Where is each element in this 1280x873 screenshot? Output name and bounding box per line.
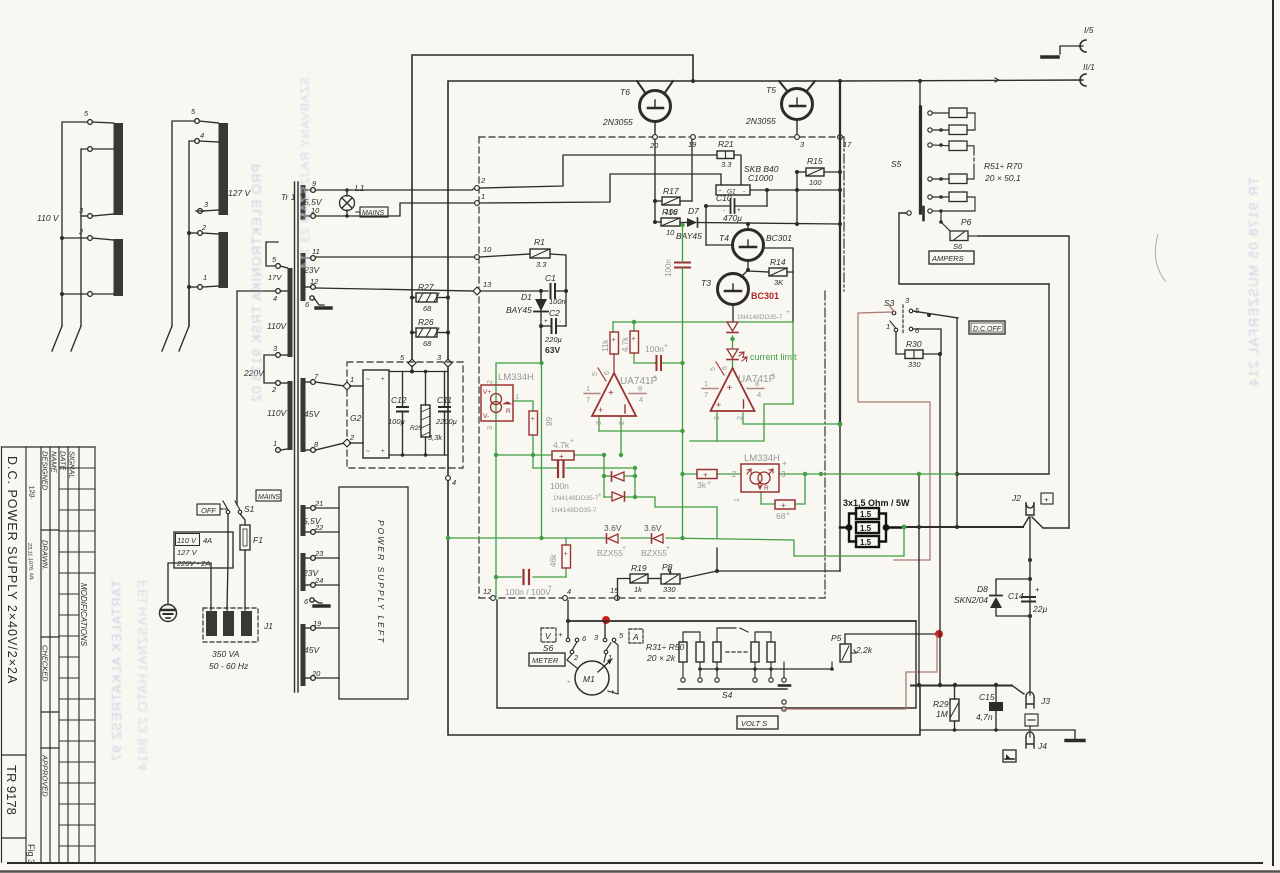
arrow on II/1 wire [995,78,999,82]
svg-text:MODIFICATIONS: MODIFICATIONS [79,583,88,647]
big box left/bottom [448,363,920,735]
svg-text:METER: METER [532,656,559,665]
svg-text:R27: R27 [418,282,434,292]
J2 down wire [1029,517,1031,695]
svg-text:22µ: 22µ [1032,604,1047,614]
taps 110V [88,120,93,125]
potentiometer P6 [950,231,968,241]
svg-text:R51÷ R70: R51÷ R70 [984,161,1022,171]
svg-text:1: 1 [203,273,207,282]
svg-text:C11: C11 [437,395,452,405]
svg-text:1N4148DO35-7: 1N4148DO35-7 [553,495,599,502]
svg-text:+: + [781,501,786,510]
svg-text:C14: C14 [1008,591,1024,601]
svg-text:S6: S6 [953,242,963,251]
svg-text:5: 5 [191,107,196,116]
svg-text:3.3: 3.3 [536,260,547,269]
svg-text:G2: G2 [350,413,362,423]
svg-text:C1: C1 [545,273,556,283]
svg-text:+: + [727,383,733,394]
T3 collector link [741,270,748,277]
G1 output wire [750,189,840,191]
svg-text:2,2k: 2,2k [855,645,873,655]
svg-text:4.7k: 4.7k [621,336,630,352]
resistor 11k [610,332,619,354]
capacitor C12 [397,406,408,408]
lamp L1 leads [346,190,348,196]
svg-text:3: 3 [79,206,84,215]
svg-text:3x1,5 Ohm / 5W: 3x1,5 Ohm / 5W [843,498,910,508]
jack J4 [1026,737,1034,748]
green opamp2 box [690,404,793,441]
R21 to G1 [734,155,741,185]
green vertical x919 top [918,473,920,475]
svg-text:T3: T3 [701,278,711,288]
red dot 2 [935,630,943,638]
diode D7 [687,218,697,227]
svg-text:~: ~ [366,449,370,455]
zener row y538 [448,537,606,539]
svg-text:AMPERS: AMPERS [931,254,964,263]
MAINS box lower [256,490,281,501]
S6 contacts [566,638,616,654]
green x793 down to 404 [792,322,794,404]
wire node13 to C1 [480,290,548,292]
green row y322 [613,321,793,323]
svg-text:+: + [608,388,614,399]
svg-text:20 × 2k: 20 × 2k [646,653,676,663]
svg-text:1: 1 [886,322,890,331]
svg-text:R: R [506,408,511,415]
sheet right frame [1272,0,1274,865]
46k stub [565,538,567,545]
svg-text:LM334H: LM334H [498,372,534,383]
svg-text:+: + [653,374,657,381]
svg-text:3: 3 [273,344,278,353]
svg-text:6: 6 [604,371,611,375]
svg-text:VOLT S: VOLT S [741,719,767,728]
svg-text:5: 5 [915,306,920,315]
svg-text:6: 6 [915,326,920,335]
green row y455 [496,454,552,456]
earth wire [168,563,211,610]
svg-text:10: 10 [483,245,492,254]
svg-text:+: + [703,471,708,480]
AMPERS box [929,251,974,264]
LM334-2 top feed [838,423,840,425]
svg-text:110 V: 110 V [177,536,197,545]
svg-text:1: 1 [350,375,354,384]
svg-text:+: + [598,492,602,499]
svg-text:5: 5 [84,109,89,118]
svg-text:5: 5 [272,255,277,264]
svg-text:4.7k: 4.7k [553,440,570,450]
svg-text:3K: 3K [774,278,784,287]
svg-text:POWER SUPPLY LEFT: POWER SUPPLY LEFT [376,520,386,644]
wiper line to P5 [700,668,832,670]
svg-text:1: 1 [734,498,741,502]
resistor 68 (U2) [529,411,538,435]
capacitor C11 [439,406,450,408]
svg-text:3.3: 3.3 [721,160,732,169]
A box [629,629,643,643]
svg-text:1M: 1M [936,709,949,719]
secondary taps [306,188,316,681]
svg-text:D8: D8 [977,584,988,594]
svg-text:R17: R17 [663,186,679,196]
voltage table box [174,532,233,568]
S4 wiper contact [782,700,786,704]
svg-text:P8: P8 [662,562,673,572]
svg-text:100n / 100V: 100n / 100V [505,587,551,597]
MAINS box top [360,207,388,217]
ladder wires [932,113,975,231]
svg-text:+: + [786,309,790,316]
rail 2 [81,149,88,326]
svg-text:6: 6 [722,366,729,370]
resistor 4.7k upper [630,331,639,353]
svg-text:1: 1 [586,384,590,393]
svg-text:+: + [664,343,668,350]
green dots [446,223,921,579]
svg-text:2: 2 [619,421,626,425]
svg-text:2: 2 [201,223,207,232]
green LM334-1 [496,363,542,598]
OFF box [197,504,220,515]
svg-text:C2: C2 [549,308,560,318]
meter M1 [575,661,609,695]
right outer rectangle [978,236,1069,528]
rectifier G1 [716,185,750,195]
rail 1 [62,122,88,326]
svg-text:13: 13 [483,280,492,289]
svg-text:current limit: current limit [750,352,797,362]
svg-text:-: - [723,208,725,214]
svg-text:12: 12 [483,587,492,596]
svg-text:100n: 100n [549,297,566,306]
svg-text:SIGNAL: SIGNAL [68,451,77,479]
svg-text:R15: R15 [807,156,823,166]
red junction dot [602,616,610,624]
svg-text:C15: C15 [979,692,995,702]
svg-text:4,7n: 4,7n [976,712,993,722]
svg-text:22: 22 [314,523,324,532]
svg-text:10: 10 [666,228,675,237]
D.C.OFF box [969,321,1005,334]
diode 1N4148 (T3 emitter) [727,322,738,331]
svg-text:BC301: BC301 [751,291,779,301]
node diamonds 5 and 3 [408,359,416,367]
resistor 3k [697,470,717,479]
I/5 wire and ground [1060,46,1083,54]
transistor T3 [718,274,749,305]
scan artifact arc [1155,234,1166,282]
svg-text:4: 4 [273,294,277,303]
svg-text:+: + [559,452,564,461]
svg-text:R19: R19 [631,563,647,573]
svg-text:1: 1 [515,392,519,401]
svg-text:110V: 110V [267,321,288,331]
P5 top wire to red dot2 [845,634,937,644]
svg-text:4: 4 [639,395,643,404]
svg-text:23.11.1976. ML: 23.11.1976. ML [26,542,34,581]
diode D1 [540,291,542,363]
svg-text:45V: 45V [304,645,320,655]
resistor R26 [416,328,437,337]
svg-text:1N4148DO35-7: 1N4148DO35-7 [551,507,597,514]
ground tap 6 upper [314,298,324,305]
svg-text:~: ~ [366,377,370,383]
svg-text:21: 21 [314,499,323,508]
title block row lines [59,468,95,846]
svg-text:A: A [632,632,639,642]
svg-text:+: + [381,449,385,455]
bank bottom leads [683,662,784,677]
resistor R27 [416,293,437,302]
svg-text:220µ: 220µ [544,335,562,344]
V box [541,628,556,642]
svg-text:+: + [1035,585,1040,594]
svg-text:T5: T5 [766,85,776,95]
fuse F1 [240,525,250,550]
svg-text:5: 5 [400,353,405,362]
svg-text:+: + [612,337,616,344]
wires from lower secs to POWER SUPPLY LEFT [315,508,339,678]
U1 output stub [613,354,615,373]
svg-text:63V: 63V [545,345,560,355]
jack J3 [1026,697,1034,708]
svg-text:127 V: 127 V [177,548,198,557]
wiper tick [922,207,925,220]
J1 connector [203,608,258,642]
svg-text:OFF: OFF [201,506,216,515]
wire 10 to node 1 [315,203,474,216]
svg-text:3: 3 [596,421,603,425]
svg-text:J2: J2 [1011,493,1021,503]
svg-text:+: + [666,545,670,552]
diode pair 1N4148 [613,472,624,481]
svg-text:100n: 100n [645,344,664,354]
bottom return wire [920,730,1075,739]
svg-text:23: 23 [314,549,324,558]
T4 base wire [705,206,707,245]
svg-text:+: + [558,630,563,639]
svg-text:II/1: II/1 [1083,62,1095,72]
meter wires [567,654,578,669]
svg-text:20: 20 [649,141,659,150]
VOLTS box [737,716,778,729]
svg-text:2: 2 [487,380,494,384]
svg-text:BAY45: BAY45 [506,305,532,315]
svg-text:+: + [548,584,552,591]
ground tap 6 lower [314,600,322,603]
svg-text:R21: R21 [718,139,734,149]
current limit LED [727,349,738,358]
svg-text:Tr 1: Tr 1 [281,192,296,202]
resistor R21 [717,151,734,159]
switch bars 127V [219,123,229,215]
svg-text:100: 100 [809,178,822,187]
svg-text:C10: C10 [716,193,732,203]
svg-text:R25: R25 [410,425,422,432]
second box top [448,81,840,363]
svg-text:+: + [707,480,711,487]
resistor R19 [630,574,648,583]
diode rows [603,455,605,497]
svg-text:4: 4 [567,587,571,596]
svg-text:F1: F1 [253,535,263,545]
S1 wires down [227,514,245,610]
resistor 68 (U4) [775,500,795,509]
svg-text:J1: J1 [263,621,273,631]
svg-text:330: 330 [908,360,921,369]
svg-text:D7: D7 [688,206,699,216]
earth symbol [160,605,177,622]
svg-text:BAY45: BAY45 [676,231,702,241]
wire tap5 up [266,242,278,266]
chain line right edges [824,291,826,598]
T4 collector [747,224,749,230]
wires from Tr1 sec2 to nodes 10 13 [315,257,474,291]
svg-text:R30: R30 [906,339,922,349]
svg-text:C12: C12 [391,395,407,405]
potentiometer P8 [661,574,680,584]
wiper loop wire [899,213,1049,284]
svg-text:100n: 100n [664,259,673,277]
svg-text:UA741P: UA741P [620,376,658,387]
title block grid [2,447,96,862]
svg-text:+: + [564,551,568,558]
POWER SUPPLY LEFT box [339,487,408,699]
capacitor C1 [550,284,552,298]
svg-text:UA741P: UA741P [738,374,776,385]
transistor T5 [782,89,813,120]
capacitor C10 [766,190,768,206]
svg-text:2: 2 [737,416,744,420]
svg-text:7: 7 [586,395,590,404]
svg-text:+: + [737,208,741,214]
dashed line nodes [473,135,842,295]
svg-text:3k: 3k [697,480,707,490]
capacitor 100n (feedback) [557,461,559,477]
S4 selector line [678,688,787,690]
dark red 100n cap top right [675,263,690,268]
svg-text:BZX55: BZX55 [597,548,623,558]
svg-text:I/5: I/5 [1084,25,1094,35]
svg-text:DESIGNED: DESIGNED [41,451,50,491]
svg-text:+: + [771,372,775,379]
svg-text:D.C. POWER SUPPLY 2×40V/2×2A: D.C. POWER SUPPLY 2×40V/2×2A [5,456,19,684]
wiper contact [907,211,911,215]
svg-text:+: + [570,438,574,445]
svg-text:-: - [743,190,745,196]
diode D8 [990,597,1002,608]
II/1 connector [1080,74,1086,86]
svg-text:3: 3 [204,200,209,209]
wire 9 to node 2 [315,187,477,190]
svg-text:100n: 100n [550,481,569,491]
svg-text:1.5: 1.5 [860,510,872,519]
svg-text:BZX55: BZX55 [641,548,667,558]
METER box [529,653,565,666]
svg-text:2200µ: 2200µ [435,417,457,426]
green 100n cap2 row [634,353,655,363]
svg-text:1k: 1k [634,585,643,594]
secondary winding bars [301,185,306,220]
svg-text:LM334H: LM334H [744,453,780,464]
svg-text:20: 20 [311,669,321,678]
svg-text:4: 4 [200,131,204,140]
svg-text:3: 3 [714,416,721,420]
svg-text:100µ: 100µ [388,417,405,426]
wire from tap4 to mains switch [237,291,276,505]
svg-text:+: + [381,377,385,383]
transistor T6 [640,91,671,122]
resistor 46k [562,545,571,568]
svg-text:Fig 3: Fig 3 [26,844,36,864]
node2 wire to R21 [479,155,717,188]
svg-text:+: + [531,416,535,423]
svg-text:L1: L1 [355,183,365,193]
svg-text:C1000: C1000 [748,173,773,183]
svg-text:D1: D1 [521,292,532,302]
svg-text:3: 3 [487,426,494,430]
svg-text:3: 3 [905,296,910,305]
svg-text:1: 1 [704,379,708,388]
capacitor 100n (U1 output) [656,356,658,370]
core lines [294,182,296,692]
svg-text:2: 2 [78,227,84,236]
svg-text:2: 2 [480,176,486,185]
svg-text:110V: 110V [267,408,288,418]
svg-text:3: 3 [800,140,805,149]
resistor R14 [769,268,787,276]
outer box top [412,55,693,363]
green vertical from D7 junction down [682,225,684,262]
svg-text:3: 3 [437,353,442,362]
svg-text:R1: R1 [534,237,545,247]
svg-text:3,3k: 3,3k [428,433,443,442]
svg-text:V-: V- [483,413,489,420]
svg-text:S5: S5 [891,159,902,169]
svg-text:1.5: 1.5 [860,538,872,547]
jumper 3-2 [264,355,276,383]
svg-text:SKN2/04: SKN2/04 [954,595,988,605]
svg-text:V: V [545,631,552,641]
svg-text:S6: S6 [543,643,554,653]
svg-text:D.C.OFF: D.C.OFF [973,326,1002,333]
node1 wire to G1 [479,174,721,203]
row y474 [683,473,698,475]
bank top wires [683,628,771,642]
svg-text:1.5: 1.5 [860,524,872,533]
inner dashed box [479,137,844,598]
resistor R1 [530,249,550,258]
svg-text:J3: J3 [1040,696,1050,706]
svg-text:T4: T4 [719,233,729,243]
svg-text:1: 1 [481,192,485,201]
resistor R15 [806,168,824,176]
resistor 4.7k (feedback) [552,451,574,460]
svg-text:-: - [567,676,570,686]
svg-text:110 V: 110 V [37,213,60,223]
svg-text:11k: 11k [601,339,610,352]
vertical from node19 [691,139,693,201]
tap stubs [92,122,113,123]
primary winding bars [288,268,293,357]
node 4 below G2 [446,476,451,481]
vertical R15 left to D7 wire [796,172,798,224]
